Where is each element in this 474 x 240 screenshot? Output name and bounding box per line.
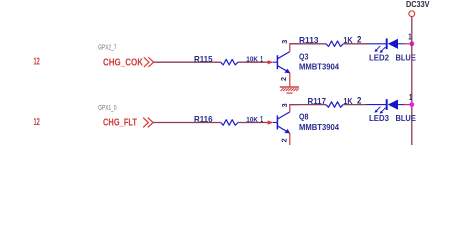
wire CHG_FLT to R116 bbox=[153, 122, 221, 124]
svg-text:2: 2 bbox=[279, 138, 288, 142]
resistor R113 bbox=[326, 41, 343, 47]
svg-text:DC33V: DC33V bbox=[406, 0, 430, 9]
resistor R115 bbox=[221, 59, 238, 65]
emitter pin wire Q8 bbox=[289, 133, 291, 145]
svg-text:MMBT3904: MMBT3904 bbox=[299, 63, 339, 72]
base pin stub Q8 bbox=[273, 122, 277, 124]
svg-text:BLUE: BLUE bbox=[396, 53, 417, 62]
svg-text:2: 2 bbox=[357, 96, 361, 106]
junction node LED2/rail bbox=[409, 41, 414, 46]
transistor Q8 body bbox=[277, 112, 289, 133]
wire Q3 collector to R113 bbox=[290, 43, 326, 45]
collector pin wire Q3 bbox=[290, 44, 299, 52]
svg-text:GPX2_7: GPX2_7 bbox=[98, 45, 116, 52]
svg-text:R115: R115 bbox=[194, 55, 213, 64]
wire R115 to Q3 base bbox=[238, 61, 273, 63]
svg-text:BLUE: BLUE bbox=[396, 114, 417, 123]
LED D3 (LED3) bbox=[367, 99, 405, 110]
pin arrow Q3 base bbox=[268, 60, 274, 64]
svg-text:1: 1 bbox=[260, 54, 263, 64]
svg-text:Q3: Q3 bbox=[299, 52, 309, 61]
pin arrow Q8 base bbox=[268, 120, 274, 124]
resistor R116 bbox=[221, 120, 238, 126]
resistor R117 bbox=[326, 102, 343, 108]
wire CHG_COK to R115 bbox=[154, 61, 221, 63]
svg-text:1: 1 bbox=[409, 93, 413, 102]
svg-text:10K: 10K bbox=[246, 115, 258, 124]
svg-text:R116: R116 bbox=[194, 115, 213, 124]
wire LED3 to rail bbox=[404, 104, 412, 106]
wire LED2 to rail bbox=[404, 43, 412, 45]
LED3 light arrows bbox=[374, 107, 385, 114]
port chevron CHG_FLT bbox=[144, 118, 153, 127]
power symbol circle DC33V bbox=[409, 11, 415, 17]
svg-text:R117: R117 bbox=[308, 97, 327, 106]
wire Q8 collector to R117 bbox=[290, 104, 326, 106]
svg-text:R113: R113 bbox=[299, 36, 319, 45]
port chevron CHG_COK bbox=[144, 58, 153, 67]
wire R117 to LED3 bbox=[343, 104, 366, 106]
svg-text:1K: 1K bbox=[343, 97, 352, 106]
collector pin wire Q8 bbox=[290, 105, 299, 112]
svg-text:12: 12 bbox=[34, 117, 41, 128]
svg-text:Q8: Q8 bbox=[299, 113, 309, 122]
svg-text:CHG_FLT: CHG_FLT bbox=[103, 118, 137, 129]
ground Q3 emitter bbox=[280, 87, 299, 93]
wire R113 to LED2 bbox=[343, 43, 366, 45]
svg-text:LED2: LED2 bbox=[369, 53, 389, 62]
LED D2 (LED2) bbox=[367, 38, 405, 49]
junction node LED3/rail bbox=[409, 102, 414, 107]
transistor Q2 body (Q3) bbox=[277, 52, 289, 73]
svg-text:GPX1_0: GPX1_0 bbox=[98, 105, 116, 112]
svg-text:1: 1 bbox=[260, 114, 263, 124]
svg-text:12: 12 bbox=[34, 57, 41, 68]
svg-text:3: 3 bbox=[280, 40, 289, 44]
wire DC33V rail bbox=[411, 17, 413, 145]
svg-text:MMBT3904: MMBT3904 bbox=[299, 123, 339, 132]
svg-text:CHG_COK: CHG_COK bbox=[103, 57, 143, 68]
wire R116 to Q8 base bbox=[238, 122, 273, 124]
svg-text:LED3: LED3 bbox=[369, 114, 389, 123]
svg-text:10K: 10K bbox=[246, 55, 258, 64]
base pin stub Q3 bbox=[273, 61, 277, 63]
svg-text:1K: 1K bbox=[343, 36, 352, 45]
emitter arrowhead Q8 bbox=[284, 129, 290, 134]
LED2 light arrows bbox=[374, 46, 385, 53]
svg-text:3: 3 bbox=[280, 103, 289, 107]
emitter arrowhead Q3 bbox=[284, 69, 290, 74]
svg-text:2: 2 bbox=[279, 77, 288, 81]
svg-text:2: 2 bbox=[357, 35, 361, 45]
emitter pin wire Q3 bbox=[289, 73, 291, 87]
